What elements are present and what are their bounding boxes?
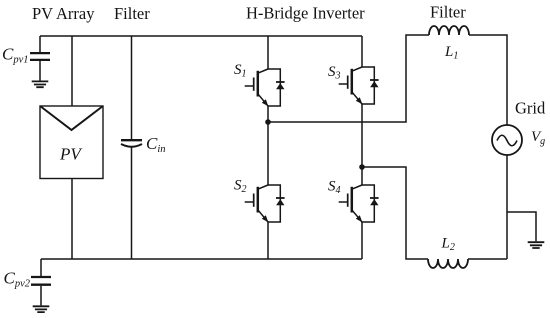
node B junction dot — [359, 164, 365, 170]
wire bottom rail — [41, 258, 362, 260]
ground under Cpv1 — [32, 81, 49, 87]
capacitor Cpv2 plates — [31, 277, 51, 285]
PV module box — [40, 106, 103, 179]
capacitor Cin curved plate — [121, 144, 142, 147]
wire Cpv2 to ground — [40, 286, 42, 306]
PV module chevron — [41, 107, 103, 131]
wire Cin top — [131, 36, 133, 139]
wire node B to L2 — [362, 167, 428, 259]
wire PV bottom — [71, 179, 73, 260]
transistor S3 — [339, 67, 379, 104]
svg-text:Grid: Grid — [515, 99, 546, 118]
wire S4 emitter to bottom rail — [361, 222, 363, 259]
svg-text:PV Array: PV Array — [32, 4, 95, 23]
ground at grid — [528, 242, 545, 248]
inductor L1 coil — [429, 26, 469, 35]
svg-text:Filter: Filter — [430, 3, 466, 22]
wire S2 emitter to bottom rail — [267, 222, 269, 259]
AC source sine wave — [497, 135, 517, 146]
inductor L2 coil — [428, 259, 468, 268]
wire S1 leg from top rail — [267, 36, 269, 69]
wire PV top — [71, 36, 73, 106]
svg-text:S3: S3 — [328, 64, 341, 82]
capacitor Cpv1 stub top — [39, 36, 41, 52]
capacitor Cpv2 stub — [40, 259, 42, 276]
transistor S4 — [339, 185, 379, 222]
ground under Cpv2 — [33, 306, 50, 312]
wire top rail — [40, 35, 362, 37]
transistor S1 — [245, 69, 285, 106]
svg-text:Filter: Filter — [114, 4, 150, 23]
wire L2 to grid bottom — [468, 155, 507, 259]
svg-text:Cpv2: Cpv2 — [4, 269, 31, 290]
transistor S2 — [245, 185, 285, 222]
AC source Vg circle — [492, 125, 522, 155]
svg-text:S1: S1 — [234, 62, 247, 80]
node A junction dot — [265, 119, 271, 125]
svg-text:L2: L2 — [441, 236, 455, 254]
capacitor Cpv1 plates — [30, 53, 50, 60]
wire grid ground branch — [507, 212, 536, 241]
wire L1 to grid top — [469, 35, 507, 125]
svg-text:Cpv1: Cpv1 — [2, 45, 29, 66]
svg-text:Cin: Cin — [146, 134, 166, 155]
svg-text:L1: L1 — [444, 44, 458, 62]
svg-text:S2: S2 — [234, 178, 247, 196]
wire S3 emitter to node B and S4 — [361, 104, 363, 185]
svg-text:Vg: Vg — [531, 129, 545, 147]
wire Cpv1 to ground — [39, 61, 41, 81]
wire S3 leg from top rail — [361, 36, 363, 67]
svg-text:PV: PV — [59, 145, 83, 164]
capacitor Cin top plate — [121, 139, 142, 141]
wire node A to L1 — [268, 35, 429, 122]
wire Cin bottom — [131, 147, 133, 259]
svg-text:S4: S4 — [328, 179, 341, 197]
svg-text:H-Bridge Inverter: H-Bridge Inverter — [246, 4, 365, 23]
wire S1 emitter to node A and S2 — [267, 106, 269, 185]
